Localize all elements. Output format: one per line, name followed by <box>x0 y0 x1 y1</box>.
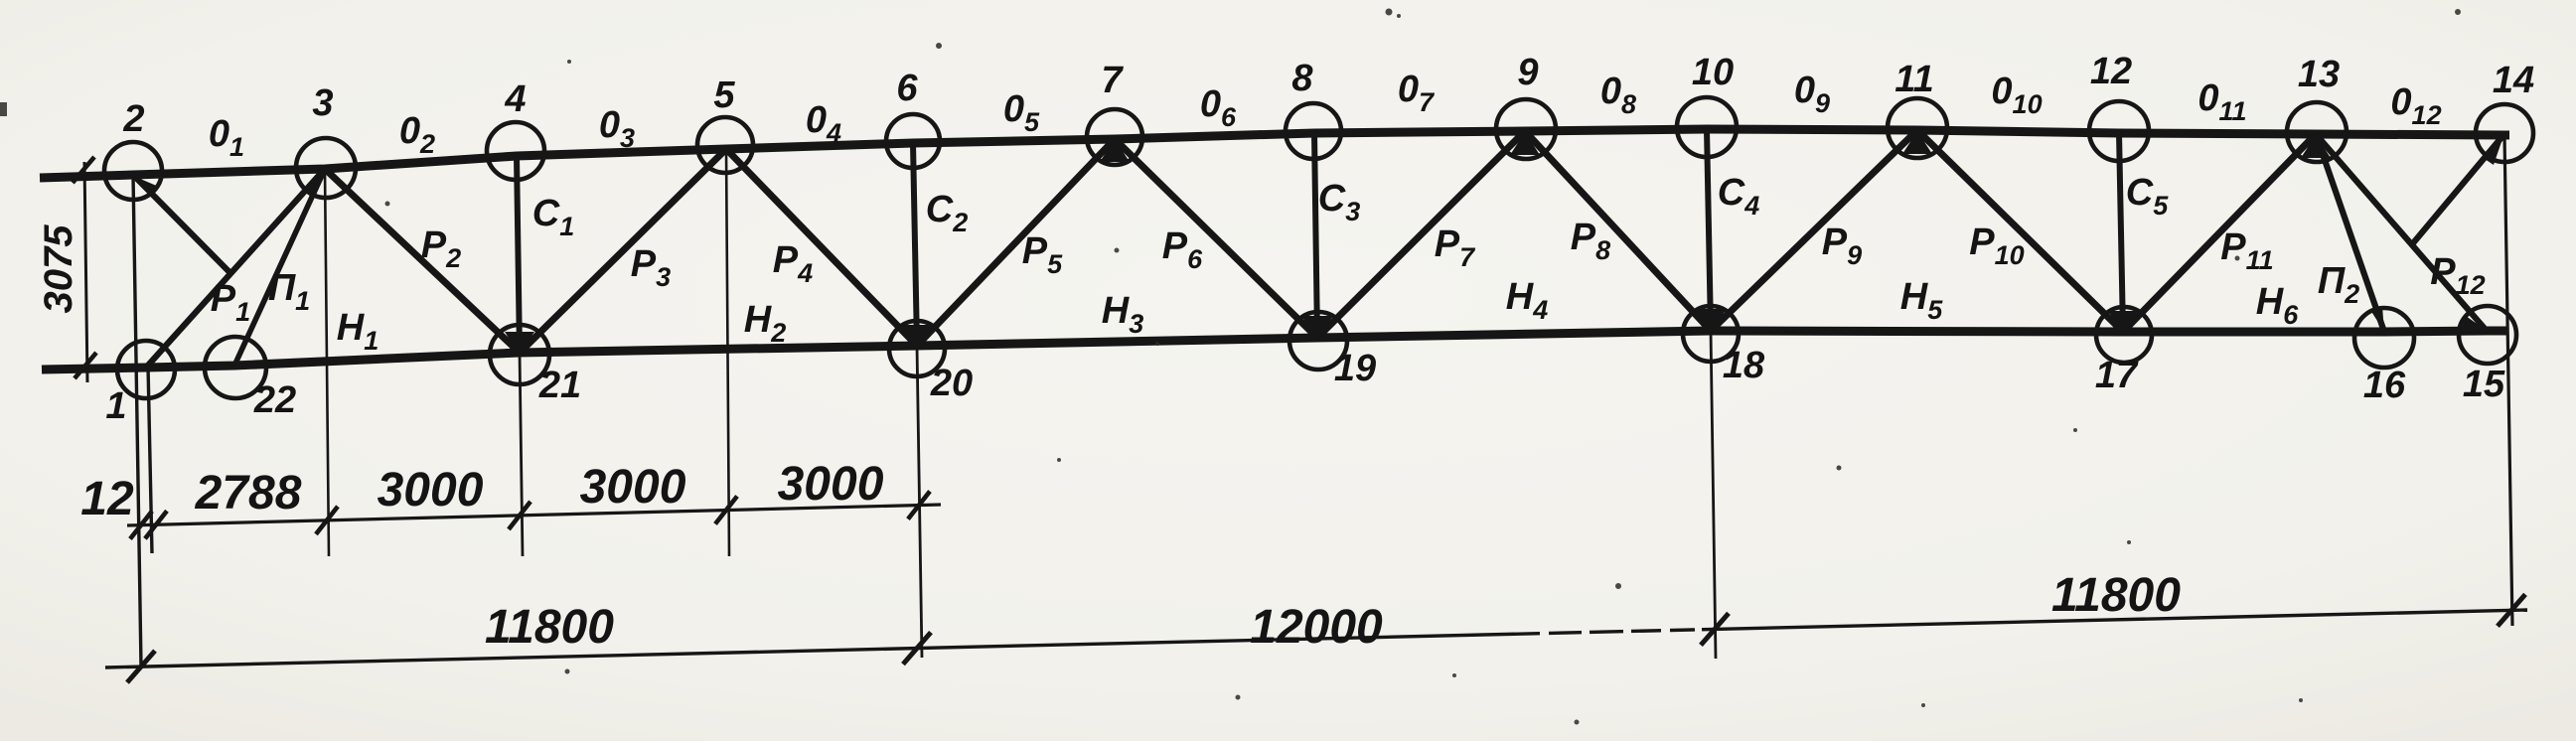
node 18 circle <box>1683 306 1739 362</box>
node 6 circle <box>886 114 940 168</box>
svg-text:15: 15 <box>2463 364 2505 405</box>
extension line from node 5 down to dimension row <box>726 149 729 556</box>
tick mark row2 x=2528 <box>2498 594 2525 626</box>
svg-text:19: 19 <box>1334 348 1376 389</box>
extension line from node 3 down to dimension row <box>325 169 329 556</box>
bottom chord H1-H6 <box>42 331 2506 370</box>
svg-text:20: 20 <box>930 363 973 404</box>
node 17 circle <box>2096 307 2152 363</box>
node 5 circle <box>697 117 753 173</box>
diagonal P7 (19-9) <box>1317 131 1525 338</box>
diagonal P1 (node 2 to mid of 1-3) <box>133 175 231 274</box>
junction blob node 20 <box>902 325 932 348</box>
junction blob node 2 <box>133 176 159 197</box>
diagonal P11 (17-13) <box>2123 134 2316 332</box>
junction blob node 19 <box>1301 316 1333 340</box>
diagonal P10 (11-17) <box>1917 130 2123 332</box>
tick mark row1 x=157 <box>145 511 167 538</box>
diagonal P6 (7-19) <box>1115 139 1317 338</box>
extension below node 20 to bottom dimension line <box>917 346 922 658</box>
svg-text:8: 8 <box>1291 58 1313 99</box>
junction blob node 7 <box>1100 139 1130 162</box>
svg-text:16: 16 <box>2363 365 2406 406</box>
diagonal P12 (node 14 to mid of 13-15) <box>2412 135 2503 244</box>
diagonal P3 (21-5) <box>520 149 726 353</box>
vertical C2 (6-20) <box>913 143 917 346</box>
tick mark row1 x=523 <box>509 502 530 529</box>
end post left (node 2 to node 1) with extension line to dimension row <box>133 175 141 667</box>
top chord O1-O12 <box>40 129 2509 178</box>
node 11 circle <box>1888 98 1947 158</box>
svg-text:7: 7 <box>1101 60 1124 101</box>
extension below node 21 <box>520 353 523 556</box>
svg-text:3075: 3075 <box>37 224 80 314</box>
tick mark row1 x=925 <box>908 492 930 519</box>
svg-text:21: 21 <box>538 365 581 406</box>
diagonal П1 (node 22 to node 3) <box>234 169 325 366</box>
svg-text:6: 6 <box>896 68 918 109</box>
node 10 circle <box>1677 97 1737 157</box>
node 3 circle <box>296 138 356 198</box>
end post right (14 to 15) with extension to dimension line <box>2504 135 2512 626</box>
svg-text:14: 14 <box>2493 60 2534 101</box>
junction blob node 15 <box>2462 316 2487 331</box>
vertical dimension line 3075 <box>84 162 87 382</box>
tick mark row2 x=923 <box>903 633 931 665</box>
svg-text:1: 1 <box>105 385 126 427</box>
junction blob node 16 <box>2370 306 2384 332</box>
svg-text:11800: 11800 <box>2051 569 2181 622</box>
node 21 circle <box>490 325 549 384</box>
diagonal P4 (5-20) <box>726 149 917 346</box>
junction blob node 9 <box>1510 132 1540 155</box>
diagonal member 1-3 <box>146 169 325 368</box>
diagonal P9 (18-11) <box>1711 130 1917 331</box>
svg-text:18: 18 <box>1723 345 1765 386</box>
vertical C1 (4-21) <box>517 156 520 353</box>
tick mark row2 x=142 <box>127 651 155 682</box>
scan speck marks <box>0 102 7 116</box>
tick mark row1 x=142 <box>130 512 152 539</box>
extension below node 18 to bottom dimension line <box>1711 331 1716 659</box>
node 8 circle <box>1286 103 1341 159</box>
node 1 circle <box>117 341 175 398</box>
svg-text:3000: 3000 <box>778 458 884 511</box>
svg-text:3: 3 <box>312 82 333 124</box>
node 2 circle <box>104 142 162 200</box>
node 9 circle <box>1496 99 1556 159</box>
tick mark row1 x=329 <box>316 507 338 534</box>
svg-text:22: 22 <box>253 379 296 421</box>
node 7 circle <box>1087 109 1142 165</box>
svg-text:2: 2 <box>122 98 144 140</box>
vertical C3 (8-19) <box>1314 133 1317 338</box>
svg-text:17: 17 <box>2095 355 2139 396</box>
tick at top chord for 3075 <box>73 157 94 183</box>
extension line from node 1 down <box>148 366 152 553</box>
svg-text:10: 10 <box>1692 52 1734 93</box>
junction blob node 11 <box>1902 131 1932 154</box>
svg-text:12: 12 <box>80 473 134 525</box>
svg-text:11: 11 <box>1894 59 1933 100</box>
svg-text:3000: 3000 <box>580 461 686 514</box>
junction blob node 17 <box>2108 311 2138 334</box>
node 22 circle <box>205 337 266 398</box>
tick at bottom chord for 3075 <box>75 353 96 378</box>
diagonal P2 (3-21) <box>325 169 520 353</box>
diagonal П2 (13-16) <box>2316 134 2384 332</box>
diagonal P8 (9-18) <box>1525 131 1711 331</box>
junction blob node 3 <box>303 169 325 195</box>
svg-text:13: 13 <box>2298 54 2340 95</box>
junction blob node 13 <box>2301 135 2331 158</box>
dash gaps in bottom dimension line <box>1540 631 1549 636</box>
vertical C5 (12-17) <box>2119 133 2123 332</box>
tick mark row1 x=731 <box>715 497 737 524</box>
junction blob node 14 <box>2482 136 2503 165</box>
svg-text:12000: 12000 <box>1250 601 1383 654</box>
vertical C4 (10-18) <box>1707 129 1711 331</box>
svg-text:5: 5 <box>713 74 735 116</box>
node 20 circle <box>889 321 945 376</box>
node 12 circle <box>2089 101 2149 161</box>
junction blob node 18 <box>1695 309 1727 333</box>
node 14 circle <box>2476 104 2533 162</box>
tick mark row2 x=1726 <box>1701 613 1729 645</box>
svg-text:11800: 11800 <box>485 601 614 654</box>
node 4 circle <box>487 122 544 180</box>
junction blob node 21 <box>505 332 534 355</box>
svg-text:4: 4 <box>504 78 526 120</box>
node 16 circle <box>2354 308 2414 368</box>
svg-text:12: 12 <box>2090 51 2132 92</box>
dimension line row 2 (11800 / 12000 / 11800) <box>105 610 2527 667</box>
svg-text:3000: 3000 <box>378 464 484 517</box>
dimension line row 1 (12 / 2788 / 3000 x3) <box>127 505 941 525</box>
diagonal member 13-15 <box>2316 134 2487 331</box>
node 15 circle <box>2459 306 2516 364</box>
svg-text:2788: 2788 <box>195 467 302 519</box>
svg-text:9: 9 <box>1517 52 1538 93</box>
diagonal P5 (20-7) <box>917 139 1115 346</box>
node 13 circle <box>2287 102 2347 162</box>
node 19 circle <box>1289 312 1347 370</box>
